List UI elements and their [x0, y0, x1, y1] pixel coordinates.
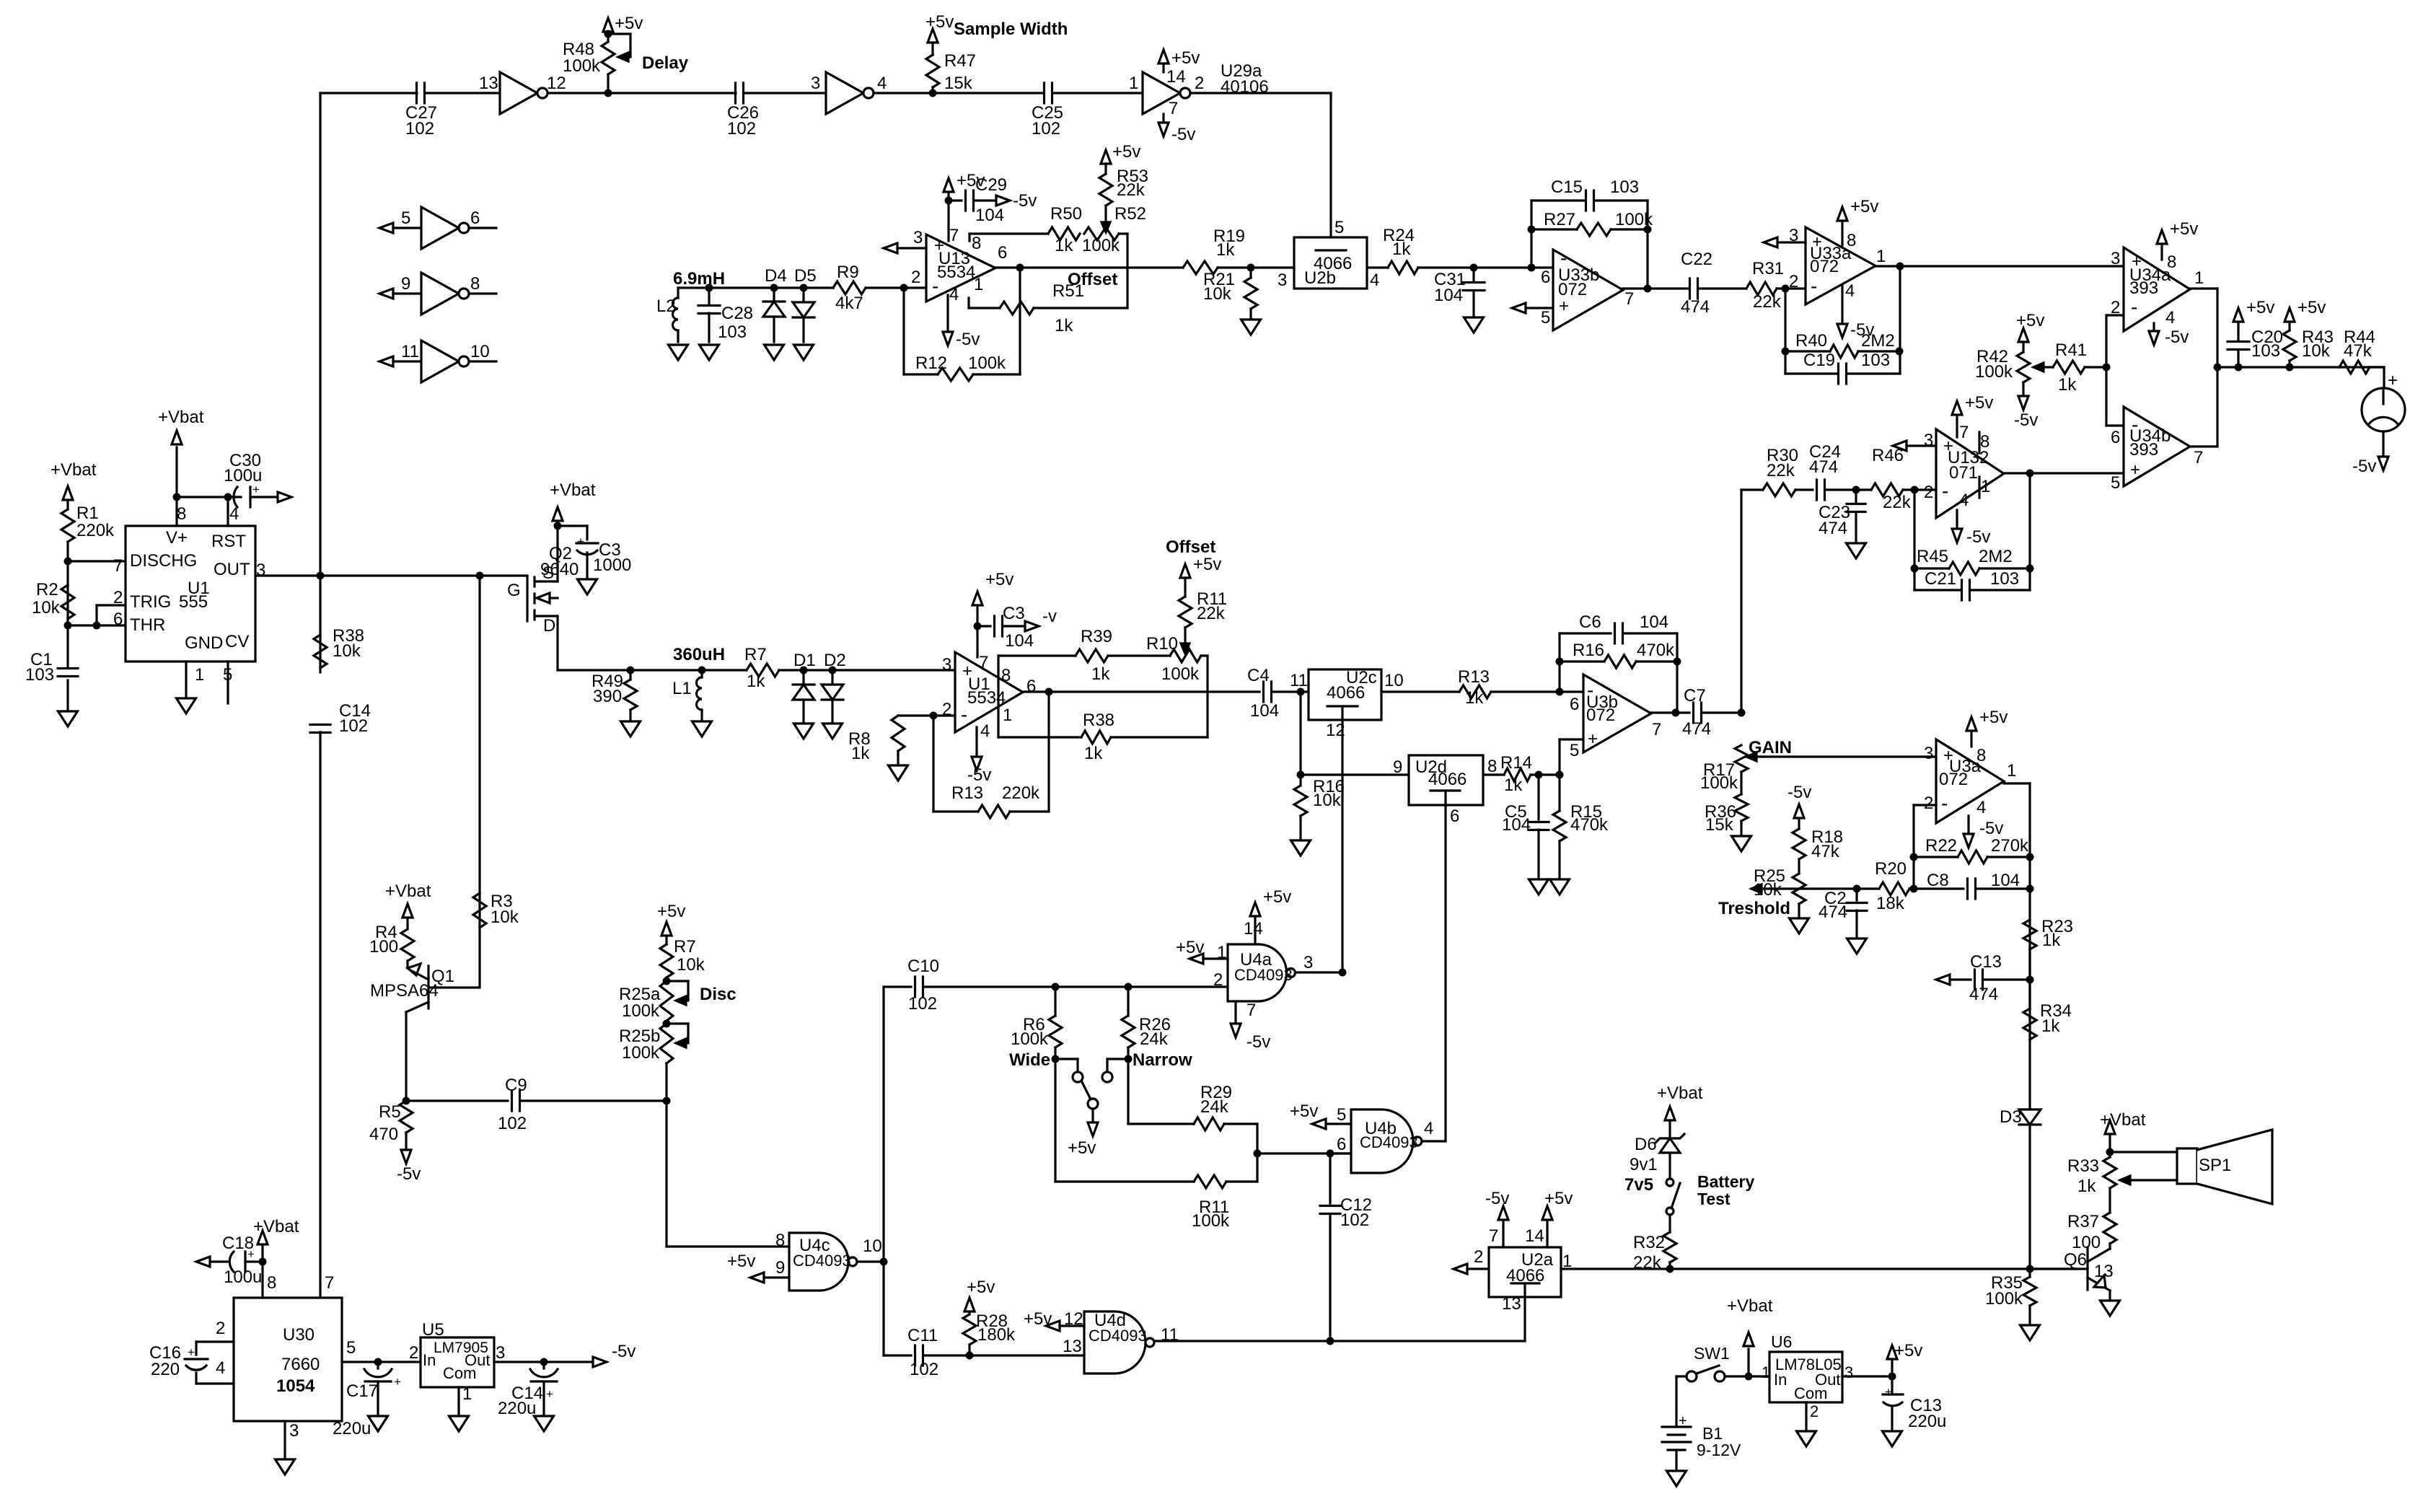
svg-text:4: 4 — [1424, 1119, 1433, 1138]
svg-text:3: 3 — [811, 74, 820, 93]
svg-text:1k: 1k — [1465, 688, 1484, 708]
svg-text:2: 2 — [1474, 1247, 1483, 1267]
svg-text:100: 100 — [2072, 1233, 2101, 1252]
svg-text:1k: 1k — [747, 672, 765, 691]
svg-text:+5v: +5v — [1850, 197, 1878, 216]
svg-text:3: 3 — [1303, 953, 1313, 972]
svg-text:2M2: 2M2 — [1861, 331, 1895, 351]
svg-text:104: 104 — [1502, 815, 1531, 835]
svg-text:+5v: +5v — [967, 1278, 995, 1297]
svg-text:470: 470 — [369, 1125, 398, 1144]
svg-text:4: 4 — [1976, 798, 1986, 817]
svg-text:1: 1 — [974, 275, 983, 294]
svg-text:5: 5 — [2111, 473, 2120, 493]
svg-text:13: 13 — [2094, 1262, 2114, 1281]
svg-text:10k: 10k — [1203, 284, 1232, 304]
svg-text:C9: C9 — [505, 1076, 527, 1095]
svg-text:7: 7 — [2194, 448, 2203, 467]
svg-text:270k: 270k — [1991, 836, 2029, 856]
svg-text:7: 7 — [1959, 423, 1969, 442]
svg-text:D5: D5 — [794, 266, 817, 286]
svg-text:Narrow: Narrow — [1133, 1050, 1192, 1070]
svg-text:GND: GND — [185, 633, 223, 653]
svg-text:100u: 100u — [224, 1267, 262, 1287]
svg-text:102: 102 — [908, 994, 937, 1014]
svg-text:+5v: +5v — [2016, 311, 2044, 330]
svg-text:Q6: Q6 — [2064, 1250, 2087, 1270]
svg-text:103: 103 — [25, 665, 54, 685]
svg-text:R2: R2 — [36, 580, 58, 599]
svg-text:Test: Test — [1697, 1190, 1731, 1208]
svg-text:-v: -v — [1042, 607, 1057, 626]
svg-text:+5v: +5v — [985, 570, 1013, 589]
svg-text:9v1: 9v1 — [1630, 1155, 1658, 1174]
svg-text:22k: 22k — [1883, 493, 1912, 512]
svg-text:100k: 100k — [1975, 362, 2013, 382]
svg-text:4066: 4066 — [1327, 683, 1365, 703]
svg-text:360uH: 360uH — [673, 645, 725, 664]
svg-text:R9: R9 — [837, 263, 859, 282]
svg-text:100u: 100u — [224, 466, 262, 485]
svg-text:L2: L2 — [656, 296, 676, 316]
svg-text:1: 1 — [1762, 1363, 1770, 1381]
svg-text:100k: 100k — [1985, 1289, 2023, 1309]
svg-text:3: 3 — [1278, 271, 1287, 290]
svg-text:R45: R45 — [1917, 547, 1948, 566]
svg-text:R13: R13 — [1458, 667, 1490, 687]
svg-text:1: 1 — [1003, 706, 1012, 725]
svg-text:U30: U30 — [283, 1325, 315, 1345]
svg-text:CD4093: CD4093 — [793, 1252, 851, 1270]
svg-text:10k: 10k — [677, 955, 705, 975]
svg-text:R16: R16 — [1573, 641, 1604, 660]
svg-text:1k: 1k — [1091, 664, 1110, 684]
svg-text:-5v: -5v — [1013, 191, 1037, 211]
svg-text:1054: 1054 — [276, 1376, 315, 1396]
svg-text:100k: 100k — [968, 353, 1006, 373]
svg-text:6: 6 — [1026, 677, 1036, 696]
svg-text:103: 103 — [2251, 341, 2280, 361]
svg-text:8: 8 — [1487, 757, 1497, 776]
svg-text:CD4093: CD4093 — [1089, 1327, 1147, 1345]
svg-text:100k: 100k — [563, 56, 601, 76]
svg-text:13: 13 — [1502, 1294, 1521, 1314]
svg-text:47k: 47k — [2344, 341, 2373, 361]
svg-text:100k: 100k — [1011, 1029, 1049, 1049]
svg-text:6: 6 — [113, 610, 123, 629]
svg-text:R40: R40 — [1795, 331, 1827, 351]
svg-text:13: 13 — [1063, 1337, 1082, 1356]
svg-text:-5v: -5v — [1485, 1189, 1509, 1208]
svg-text:7660: 7660 — [281, 1355, 320, 1374]
svg-text:D1: D1 — [793, 651, 816, 670]
svg-text:+5v: +5v — [1290, 1102, 1318, 1121]
svg-text:4: 4 — [1370, 271, 1379, 290]
svg-text:14: 14 — [1525, 1226, 1544, 1246]
svg-text:6: 6 — [1450, 806, 1459, 826]
svg-text:C10: C10 — [907, 957, 939, 976]
svg-text:In: In — [423, 1351, 436, 1369]
svg-text:220k: 220k — [76, 521, 115, 540]
svg-text:R13: R13 — [951, 783, 983, 803]
svg-text:22k: 22k — [1117, 180, 1145, 200]
svg-text:8: 8 — [972, 234, 981, 253]
svg-text:-5v: -5v — [1979, 819, 2003, 838]
svg-text:5534: 5534 — [967, 688, 1006, 708]
svg-text:1k: 1k — [1055, 316, 1073, 335]
svg-text:1: 1 — [1876, 247, 1886, 266]
svg-text:In: In — [1774, 1371, 1787, 1389]
svg-text:C7: C7 — [1684, 686, 1706, 706]
svg-text:103: 103 — [1861, 351, 1890, 370]
svg-text:R7: R7 — [744, 645, 767, 664]
svg-text:7: 7 — [1489, 1226, 1498, 1246]
svg-text:104: 104 — [1991, 871, 2020, 890]
svg-text:5534: 5534 — [937, 263, 975, 282]
svg-text:+Vbat: +Vbat — [50, 460, 97, 480]
svg-text:220u: 220u — [498, 1399, 536, 1418]
svg-text:-5v: -5v — [397, 1164, 421, 1184]
svg-text:RST: RST — [211, 532, 246, 551]
svg-text:+5v: +5v — [2170, 219, 2198, 239]
svg-text:5: 5 — [223, 665, 232, 685]
svg-text:10: 10 — [1384, 671, 1404, 690]
svg-text:102: 102 — [339, 716, 368, 736]
svg-text:10k: 10k — [2302, 341, 2331, 361]
svg-text:2: 2 — [113, 588, 123, 607]
svg-text:1000: 1000 — [593, 555, 631, 575]
svg-text:C4: C4 — [1247, 666, 1270, 685]
svg-text:1k: 1k — [2058, 375, 2077, 395]
svg-text:+5v: +5v — [1068, 1138, 1096, 1158]
svg-text:R22: R22 — [1925, 836, 1957, 856]
svg-text:R50: R50 — [1050, 204, 1082, 224]
svg-text:+Vbat: +Vbat — [158, 408, 204, 427]
svg-text:+Vbat: +Vbat — [1727, 1296, 1773, 1316]
svg-text:104: 104 — [1640, 612, 1668, 632]
svg-text:8: 8 — [177, 504, 186, 524]
svg-text:C22: C22 — [1681, 250, 1712, 269]
svg-text:100k: 100k — [1161, 664, 1200, 684]
svg-text:5: 5 — [1541, 308, 1550, 328]
svg-text:C15: C15 — [1551, 177, 1583, 197]
svg-text:555: 555 — [179, 592, 208, 612]
svg-text:10k: 10k — [491, 907, 519, 927]
svg-text:072: 072 — [1810, 257, 1839, 276]
svg-text:071: 071 — [1949, 463, 1978, 483]
svg-text:C19: C19 — [1803, 351, 1835, 370]
svg-text:-5v: -5v — [2165, 328, 2189, 347]
svg-text:+5v: +5v — [1193, 555, 1221, 574]
svg-text:V+: V+ — [166, 528, 188, 548]
svg-text:102: 102 — [910, 1360, 938, 1379]
svg-text:C21: C21 — [1925, 569, 1956, 589]
svg-text:7: 7 — [949, 226, 959, 245]
svg-text:14: 14 — [1244, 919, 1263, 939]
svg-text:100k: 100k — [1700, 773, 1738, 793]
svg-text:220u: 220u — [1908, 1412, 1946, 1431]
svg-text:2: 2 — [1924, 794, 1933, 813]
svg-text:+5v: +5v — [727, 1252, 755, 1271]
svg-text:3: 3 — [496, 1343, 505, 1363]
svg-text:103: 103 — [718, 322, 747, 342]
svg-text:R5: R5 — [379, 1102, 401, 1122]
svg-text:8: 8 — [1976, 746, 1986, 765]
svg-text:2: 2 — [1789, 272, 1798, 291]
svg-text:+: + — [394, 1375, 401, 1389]
svg-text:7: 7 — [979, 653, 988, 672]
svg-text:22k: 22k — [1767, 461, 1795, 480]
svg-text:12: 12 — [1326, 721, 1345, 740]
svg-text:1: 1 — [462, 1384, 472, 1404]
svg-text:9: 9 — [401, 274, 410, 294]
svg-text:3: 3 — [942, 655, 951, 674]
svg-text:5: 5 — [346, 1338, 356, 1358]
svg-text:102: 102 — [498, 1114, 527, 1133]
svg-text:D4: D4 — [765, 266, 787, 286]
svg-text:U6: U6 — [1771, 1332, 1792, 1351]
svg-text:13: 13 — [479, 74, 498, 93]
svg-text:100k: 100k — [622, 1043, 660, 1063]
svg-text:3: 3 — [2111, 249, 2120, 268]
svg-text:3: 3 — [1924, 431, 1933, 450]
svg-text:C29: C29 — [975, 175, 1007, 195]
svg-text:1: 1 — [195, 665, 204, 685]
svg-text:+5v: +5v — [1544, 1189, 1573, 1208]
svg-text:2: 2 — [911, 268, 920, 287]
svg-text:104: 104 — [1005, 631, 1034, 651]
svg-text:3: 3 — [913, 228, 923, 247]
svg-text:Offset: Offset — [1068, 270, 1117, 289]
svg-text:7: 7 — [1246, 1001, 1256, 1020]
svg-text:10k: 10k — [32, 598, 61, 617]
svg-text:SP1: SP1 — [2199, 1156, 2231, 1175]
svg-text:3: 3 — [256, 561, 265, 580]
svg-text:C8: C8 — [1927, 871, 1949, 890]
svg-text:1k: 1k — [2077, 1177, 2096, 1196]
svg-text:+: + — [188, 1345, 195, 1359]
svg-text:+Vbat: +Vbat — [253, 1217, 299, 1236]
svg-text:393: 393 — [2129, 278, 2158, 298]
svg-text:102: 102 — [1340, 1210, 1369, 1230]
svg-text:10: 10 — [863, 1236, 882, 1256]
svg-text:4: 4 — [1845, 281, 1855, 301]
svg-text:474: 474 — [1681, 297, 1710, 317]
svg-text:9-12V: 9-12V — [1697, 1441, 1741, 1459]
svg-text:C17: C17 — [346, 1381, 378, 1401]
svg-text:072: 072 — [1586, 706, 1615, 725]
svg-text:1k: 1k — [1084, 744, 1103, 763]
svg-text:390: 390 — [593, 687, 622, 706]
svg-text:1k: 1k — [2041, 1016, 2060, 1036]
svg-text:-5v: -5v — [1171, 125, 1195, 144]
svg-text:SW1: SW1 — [1694, 1344, 1730, 1363]
svg-text:GAIN: GAIN — [1749, 738, 1792, 757]
svg-text:180k: 180k — [977, 1325, 1016, 1345]
svg-text:+: + — [2388, 371, 2398, 390]
svg-text:-5v: -5v — [2352, 457, 2376, 476]
svg-text:D3: D3 — [2000, 1107, 2022, 1127]
svg-text:100k: 100k — [1615, 210, 1653, 229]
svg-text:8: 8 — [1980, 432, 1989, 452]
svg-text:+: + — [1559, 296, 1569, 316]
svg-text:+Vbat: +Vbat — [550, 480, 596, 500]
svg-text:Sample Width: Sample Width — [954, 19, 1068, 39]
svg-text:474: 474 — [1819, 519, 1847, 538]
svg-text:4k7: 4k7 — [835, 294, 863, 313]
svg-text:R27: R27 — [1544, 210, 1575, 229]
svg-text:+5v: +5v — [1894, 1341, 1922, 1361]
svg-text:22k: 22k — [1197, 604, 1226, 623]
svg-text:4: 4 — [216, 1358, 225, 1378]
svg-text:CD4093: CD4093 — [1360, 1133, 1418, 1151]
svg-text:4: 4 — [980, 721, 990, 741]
svg-text:10k: 10k — [1313, 791, 1342, 810]
svg-text:1k: 1k — [1504, 775, 1523, 795]
svg-text:+: + — [577, 535, 584, 548]
svg-text:G: G — [507, 581, 521, 600]
svg-text:-: - — [2131, 296, 2137, 318]
svg-text:Battery: Battery — [1697, 1172, 1754, 1191]
svg-text:R1: R1 — [76, 504, 99, 523]
svg-text:2: 2 — [1924, 483, 1933, 502]
svg-text:100k: 100k — [622, 1001, 660, 1021]
svg-text:+5v: +5v — [657, 902, 685, 921]
svg-text:103: 103 — [1610, 177, 1639, 197]
svg-text:100: 100 — [369, 937, 398, 957]
svg-text:R7: R7 — [674, 937, 696, 957]
svg-text:220u: 220u — [333, 1419, 371, 1438]
svg-text:7: 7 — [1169, 99, 1178, 118]
svg-text:R32: R32 — [1633, 1233, 1665, 1252]
svg-text:-5v: -5v — [1246, 1032, 1270, 1052]
svg-text:+5v: +5v — [1263, 887, 1291, 907]
svg-text:-5v: -5v — [1787, 783, 1811, 802]
svg-text:470k: 470k — [1637, 641, 1675, 660]
svg-text:THR: THR — [130, 615, 165, 635]
svg-text:Treshold: Treshold — [1718, 899, 1790, 918]
svg-text:C28: C28 — [721, 304, 753, 323]
svg-text:2: 2 — [1195, 74, 1204, 93]
svg-text:C13: C13 — [1970, 952, 2002, 972]
svg-text:100k: 100k — [1192, 1211, 1230, 1231]
svg-text:1k: 1k — [1392, 239, 1411, 259]
svg-text:22k: 22k — [1753, 292, 1782, 312]
svg-text:3: 3 — [1844, 1363, 1853, 1381]
svg-text:8: 8 — [267, 1273, 276, 1293]
svg-text:4: 4 — [2165, 308, 2175, 328]
svg-text:-5v: -5v — [612, 1342, 636, 1361]
svg-text:+Vbat: +Vbat — [1657, 1084, 1703, 1103]
svg-text:474: 474 — [1969, 985, 1998, 1004]
svg-text:+: + — [546, 1387, 553, 1401]
svg-text:3: 3 — [1924, 744, 1933, 763]
svg-text:6.9mH: 6.9mH — [673, 269, 725, 289]
svg-text:4066: 4066 — [1428, 770, 1466, 789]
svg-text:102: 102 — [405, 119, 434, 139]
svg-text:100k: 100k — [1082, 236, 1120, 255]
svg-text:15k: 15k — [944, 74, 973, 93]
svg-text:6: 6 — [998, 243, 1007, 263]
svg-text:5: 5 — [1334, 218, 1344, 237]
svg-text:24k: 24k — [1140, 1029, 1169, 1049]
svg-text:Com: Com — [443, 1364, 476, 1382]
svg-text:6: 6 — [1570, 695, 1579, 714]
svg-text:R12: R12 — [915, 353, 947, 373]
svg-text:+5v: +5v — [2246, 298, 2274, 317]
svg-text:+: + — [247, 1247, 255, 1261]
svg-text:6: 6 — [1337, 1135, 1346, 1154]
svg-text:1k: 1k — [1216, 240, 1235, 260]
svg-text:15k: 15k — [1705, 815, 1734, 835]
svg-text:18k: 18k — [1876, 894, 1905, 913]
svg-text:+5v: +5v — [1171, 48, 1200, 68]
svg-text:C3: C3 — [1003, 604, 1025, 623]
svg-text:+: + — [1588, 729, 1598, 749]
svg-text:393: 393 — [2129, 440, 2158, 460]
svg-text:R33: R33 — [2067, 1156, 2099, 1176]
svg-text:24k: 24k — [1200, 1097, 1229, 1117]
svg-text:7: 7 — [1652, 720, 1661, 739]
svg-text:5: 5 — [401, 208, 410, 228]
svg-text:2M2: 2M2 — [1979, 547, 2013, 566]
svg-text:+5v: +5v — [1112, 142, 1140, 162]
svg-text:+: + — [2130, 460, 2140, 480]
svg-text:104: 104 — [975, 206, 1004, 225]
svg-text:470k: 470k — [1570, 815, 1609, 835]
svg-text:DISCHG: DISCHG — [130, 551, 197, 571]
svg-text:10k: 10k — [1754, 880, 1782, 900]
svg-text:1k: 1k — [851, 744, 870, 763]
svg-text:11: 11 — [1290, 671, 1308, 690]
svg-text:1: 1 — [1981, 477, 1990, 496]
svg-text:104: 104 — [1434, 286, 1463, 305]
svg-text:8: 8 — [1847, 231, 1856, 250]
svg-text:8: 8 — [2167, 252, 2176, 272]
svg-text:+Vbat: +Vbat — [385, 882, 431, 901]
svg-text:1: 1 — [2194, 268, 2204, 288]
svg-text:6: 6 — [470, 208, 480, 228]
svg-text:Wide: Wide — [1009, 1050, 1050, 1070]
svg-text:9: 9 — [1393, 757, 1402, 777]
svg-text:10: 10 — [470, 342, 490, 361]
svg-text:R14: R14 — [1500, 753, 1532, 773]
svg-text:8: 8 — [1001, 666, 1011, 685]
svg-text:+5v: +5v — [2297, 298, 2326, 317]
svg-text:1k: 1k — [1055, 236, 1073, 255]
svg-text:R38: R38 — [1083, 711, 1114, 730]
svg-text:R52: R52 — [1114, 204, 1146, 224]
svg-text:MPSA64: MPSA64 — [370, 981, 439, 1001]
svg-text:1: 1 — [2007, 761, 2016, 781]
svg-text:Com: Com — [1794, 1384, 1827, 1402]
svg-text:R37: R37 — [2067, 1212, 2099, 1231]
svg-text:5: 5 — [1570, 741, 1579, 760]
svg-text:-: - — [1811, 275, 1817, 297]
svg-text:Delay: Delay — [642, 53, 689, 73]
svg-text:CV: CV — [225, 632, 249, 651]
svg-text:103: 103 — [1990, 569, 2019, 589]
svg-text:14: 14 — [1166, 67, 1186, 87]
svg-text:3: 3 — [289, 1421, 299, 1441]
svg-text:7: 7 — [325, 1273, 334, 1293]
svg-text:R20: R20 — [1875, 859, 1907, 879]
svg-text:R47: R47 — [944, 51, 976, 71]
svg-text:2: 2 — [1810, 1402, 1819, 1420]
svg-text:Disc: Disc — [700, 985, 736, 1004]
svg-text:-: - — [1941, 792, 1948, 814]
svg-text:104: 104 — [1250, 701, 1279, 721]
